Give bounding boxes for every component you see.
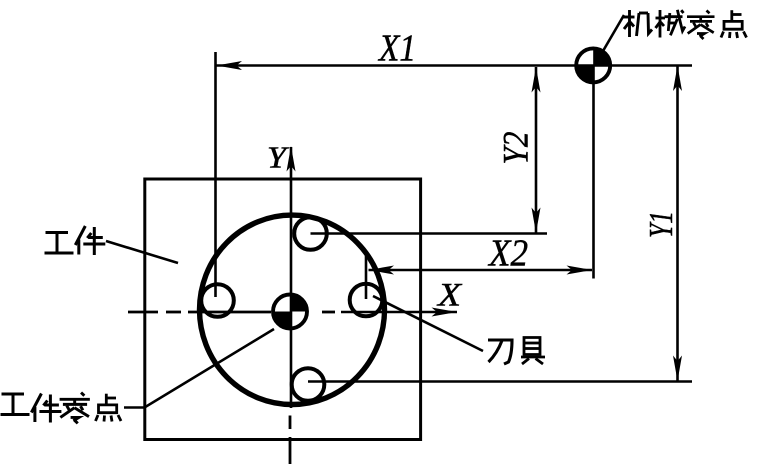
Y axis: [287, 146, 296, 408]
top hole extension line: [311, 232, 548, 235]
hole right: [350, 284, 383, 317]
label 机械零点 (machine zero point): [624, 10, 747, 39]
hole top: [294, 217, 327, 250]
workpiece leader line: [106, 241, 178, 263]
svg-text:Y1: Y1: [643, 211, 680, 238]
vertical center line (dashed, below axis): [289, 416, 292, 465]
svg-text:Y: Y: [267, 140, 289, 175]
svg-text:X: X: [436, 278, 463, 314]
svg-text:X1: X1: [377, 28, 416, 70]
hole bottom: [292, 368, 325, 401]
machine zero symbol: [575, 47, 612, 84]
hole left: [201, 284, 234, 317]
horizontal center line (dashed): [128, 311, 335, 314]
tool leader line: [373, 296, 483, 351]
label 工件 (workpiece): [45, 226, 106, 255]
bottom hole extension line: [308, 380, 692, 383]
X1 left arrow: [217, 61, 243, 70]
workpiece zero symbol: [272, 293, 309, 330]
Y2 dimension line: [532, 67, 541, 233]
X axis: [341, 308, 457, 317]
Y1 dimension line: [673, 66, 682, 382]
workpiece rectangle: [145, 179, 421, 440]
workpiece zero leader line: [124, 329, 274, 408]
label 刀具 (tool): [488, 338, 545, 365]
machine zero extension line (down): [592, 66, 595, 279]
svg-text:Y2: Y2: [496, 132, 536, 165]
X1 extension line (left): [214, 52, 217, 297]
big circle (bolt circle boss): [200, 215, 385, 404]
X1 dimension line: [216, 64, 693, 67]
X2 extension line (up from right hole): [365, 256, 368, 299]
svg-text:X2: X2: [487, 233, 528, 275]
machine zero leader line: [603, 15, 624, 51]
label 工件零点 (workpiece zero point): [1, 393, 122, 424]
X2 dimension line: [369, 266, 593, 275]
